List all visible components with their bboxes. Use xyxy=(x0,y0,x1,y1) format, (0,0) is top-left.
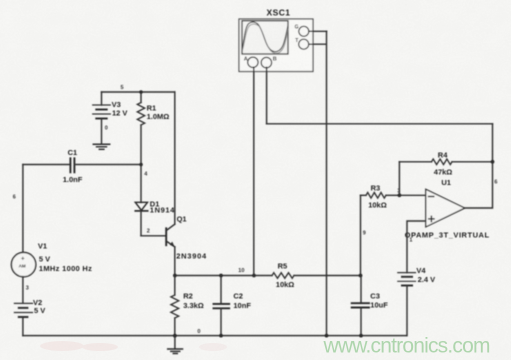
oscilloscope XSC1 label xyxy=(267,7,291,17)
node 3 junction dot (minus input) xyxy=(398,193,402,197)
node junction dot rail R2 xyxy=(173,334,177,338)
battery V4 xyxy=(398,273,416,286)
op-amp U1 xyxy=(426,189,465,227)
paper noise overlay xyxy=(0,0,1,1)
wire V2 to rail xyxy=(22,317,24,336)
value OPAMP_3T_VIRTUAL xyxy=(405,230,490,239)
label R5 xyxy=(278,262,288,271)
wire emitter vertical xyxy=(174,247,176,276)
resistor R5 xyxy=(254,273,361,279)
capacitor C1 xyxy=(23,158,141,172)
ground (rail) xyxy=(168,336,183,354)
resistor R4 xyxy=(399,159,492,165)
node 6 xyxy=(13,195,16,201)
wire collector vertical xyxy=(174,92,176,224)
label C1 xyxy=(68,148,78,157)
ground (V3) xyxy=(93,144,109,149)
wire output xyxy=(465,124,493,208)
value 1.0MOhm xyxy=(147,112,170,121)
oscilloscope terminal A xyxy=(244,56,258,67)
node 2 xyxy=(147,228,150,234)
value 47kOhm xyxy=(434,167,453,176)
node 1 label xyxy=(409,237,412,243)
wire scope B vertical xyxy=(266,67,268,123)
node 9 junction dot xyxy=(359,274,363,278)
resistor R1 xyxy=(137,92,144,165)
transistor Q1 xyxy=(166,224,175,247)
node 3 xyxy=(26,285,29,291)
node junction dot rail C3 xyxy=(359,334,363,338)
wire scope A vertical to node 10 xyxy=(253,67,255,275)
wire bottom ground rail xyxy=(23,335,407,337)
value 3.3kOhm xyxy=(183,301,204,310)
node junction dot R1 top xyxy=(139,90,143,94)
value 10kOhm (R5) xyxy=(276,280,295,289)
value 2.4 V xyxy=(418,275,436,284)
value 1N914 xyxy=(150,206,175,215)
node 6 label (output) xyxy=(494,180,497,186)
watermark www.cntronics.com xyxy=(323,335,491,358)
resistor R3 xyxy=(361,193,400,199)
value 2N3904 xyxy=(176,252,207,261)
node 4 junction dot xyxy=(139,163,143,167)
label R2 xyxy=(183,291,193,300)
label D1 xyxy=(150,200,160,209)
label V1 xyxy=(38,242,47,251)
value 1.0nF xyxy=(63,175,83,184)
wire V3 to ground xyxy=(101,119,103,144)
oscilloscope terminal T xyxy=(295,38,309,49)
oscilloscope terminal G xyxy=(295,25,309,37)
wire V1 to V2 xyxy=(22,277,24,304)
faint pink smudge xyxy=(40,341,227,351)
wire scope G vertical to ground rail xyxy=(326,31,328,335)
node junction dot scope A xyxy=(252,274,256,278)
wire scope B horizontal to output xyxy=(267,123,493,125)
wire C1 to V1 xyxy=(22,165,24,253)
wire V4 to rail xyxy=(406,286,408,336)
node junction dot rail scope G xyxy=(325,334,329,338)
node 0 (V3 ground) xyxy=(105,126,108,132)
label V3 xyxy=(112,100,121,109)
node 4 xyxy=(144,172,148,178)
wire plus input xyxy=(407,221,426,273)
node 9 label xyxy=(363,231,366,237)
node 0 label (rail) xyxy=(197,329,200,335)
wire node 9 vertical xyxy=(360,195,362,275)
value 10nF xyxy=(233,301,251,310)
source V1 (AM) xyxy=(11,252,35,276)
capacitor C2 xyxy=(214,276,230,336)
label C3 xyxy=(370,291,380,300)
label U1 xyxy=(441,178,451,187)
label R3 xyxy=(371,183,381,192)
value 10kOhm (R3) xyxy=(368,200,387,209)
label C2 xyxy=(233,291,243,300)
node 5 xyxy=(121,85,124,91)
node 10 label xyxy=(238,268,244,274)
battery V2 xyxy=(14,303,32,317)
wire scope G leader xyxy=(309,30,327,32)
label V4 xyxy=(416,266,426,275)
wire base xyxy=(141,235,166,237)
label Q1 xyxy=(177,214,187,223)
wire R4 feedback left vertical xyxy=(398,162,400,196)
wire node 10 horizontal xyxy=(175,275,253,277)
battery V3 xyxy=(93,92,111,119)
wire top rail V3 to collector branch xyxy=(102,91,175,93)
value 5 V (V2) xyxy=(34,306,45,315)
value 5 V xyxy=(39,255,50,264)
oscilloscope terminal B xyxy=(261,56,277,67)
node 10 junction dot (emitter) xyxy=(173,274,177,278)
value 10uF xyxy=(370,300,388,309)
node junction dot C2 top xyxy=(219,274,223,278)
node junction dot R4 right xyxy=(491,160,495,164)
value 12 V xyxy=(112,109,127,118)
wire scope T stub xyxy=(309,43,326,45)
diode D1 feed wire xyxy=(140,165,142,203)
oscilloscope XSC1 body xyxy=(239,19,313,72)
label R4 xyxy=(438,150,448,159)
wire minus input xyxy=(399,194,425,196)
label R1 xyxy=(147,104,157,113)
resistor R2 xyxy=(171,276,179,336)
node junction dot rail C2 xyxy=(219,334,223,338)
value 1MHz 1000 Hz xyxy=(39,264,92,273)
capacitor C3 xyxy=(352,276,369,336)
label V2 xyxy=(33,298,42,307)
diode D1 xyxy=(135,202,147,236)
node 3 label (op-amp input) xyxy=(397,188,400,194)
